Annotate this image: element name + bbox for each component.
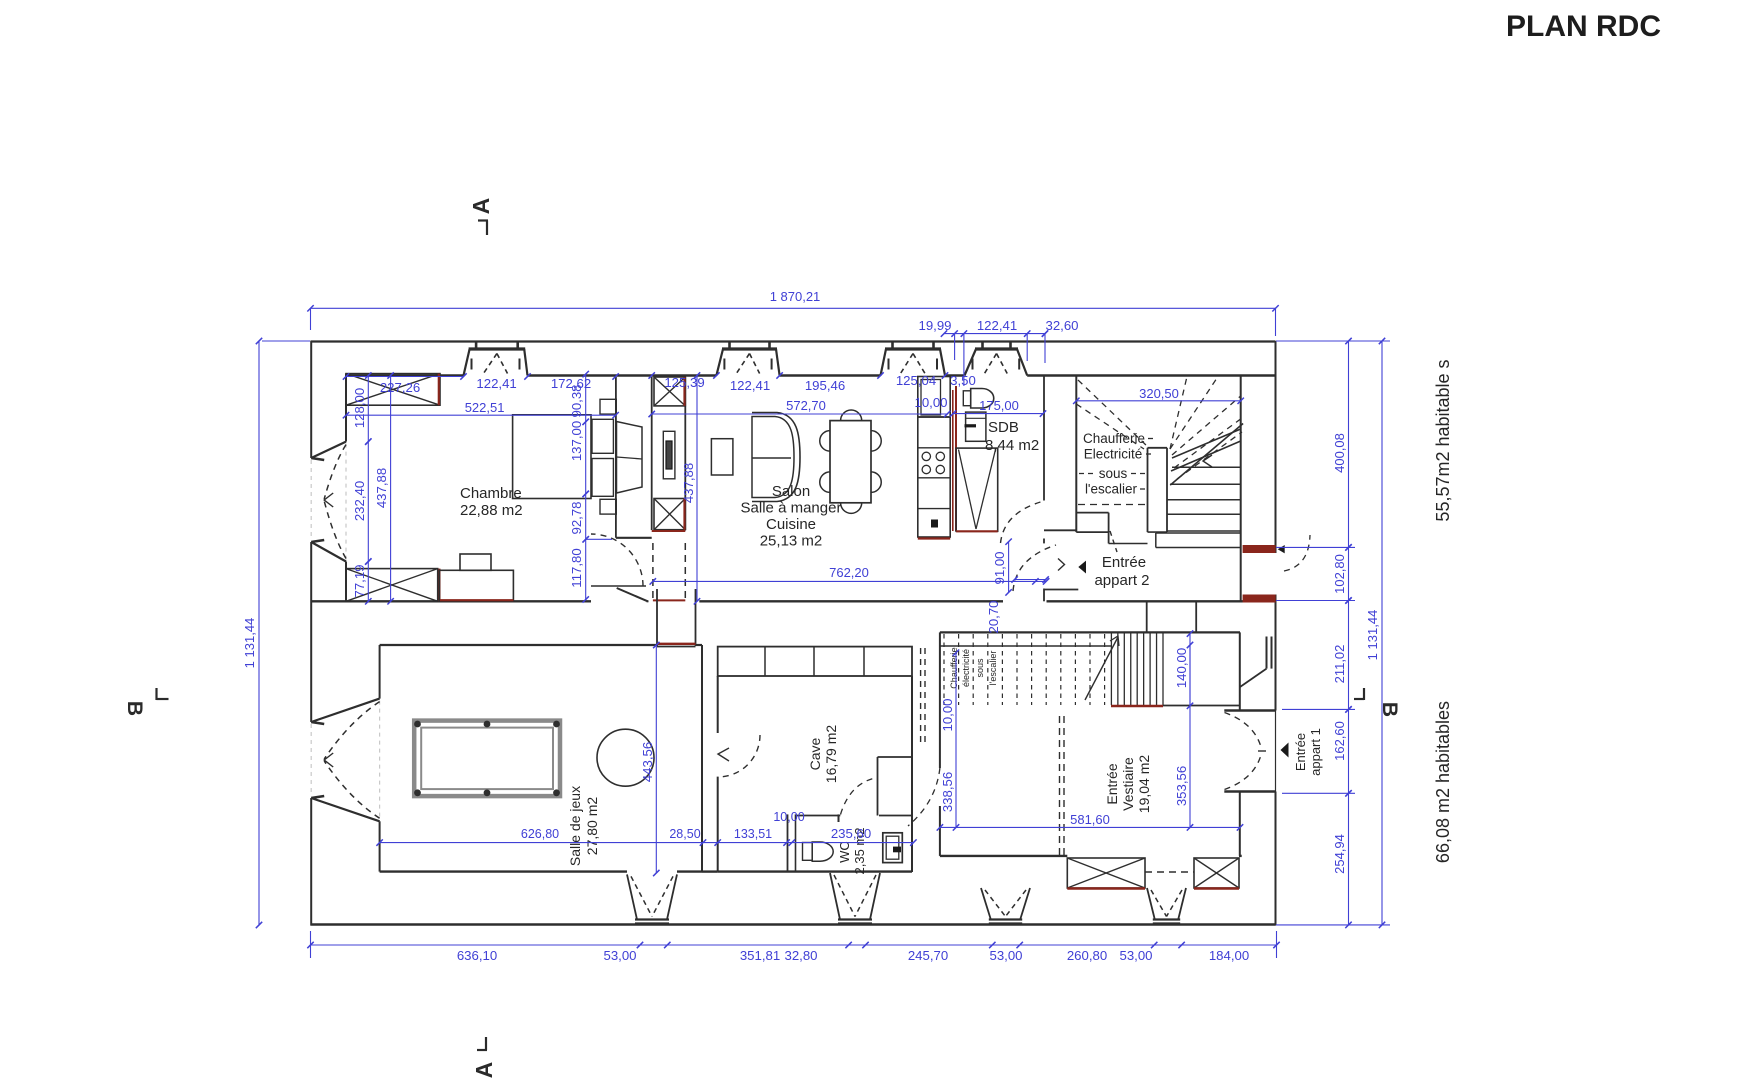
wc washbasin (883, 833, 903, 863)
svg-text:400,08: 400,08 (1332, 433, 1347, 473)
salon south wall (699, 600, 1003, 602)
cave shelves (718, 647, 912, 676)
svg-text:443,56: 443,56 (640, 742, 655, 782)
svg-text:25,13 m2: 25,13 m2 (760, 533, 823, 550)
svg-text:Salle de jeux: Salle de jeux (567, 786, 583, 866)
pool table pockets (414, 721, 421, 728)
cave partition (878, 756, 913, 758)
dim 443 (655, 645, 657, 873)
kitchen chain ext (954, 334, 956, 360)
svg-text:437,88: 437,88 (374, 468, 389, 508)
window kitchen north (965, 349, 977, 376)
svg-text:227,26: 227,26 (380, 380, 420, 395)
svg-text:Chambre: Chambre (460, 485, 522, 502)
dim 162 (1348, 709, 1350, 793)
svg-text:27,80 m2: 27,80 m2 (584, 797, 600, 856)
svg-text:32,60: 32,60 (1045, 318, 1078, 333)
svg-text:8,44 m2: 8,44 m2 (985, 437, 1039, 454)
svg-text:133,51: 133,51 (734, 827, 772, 841)
svg-text:WC: WC (837, 841, 852, 863)
svg-text:195,46: 195,46 (805, 378, 845, 393)
dim 140 (1189, 634, 1191, 706)
dim 1870 (311, 307, 1276, 309)
svg-text:245,70: 245,70 (908, 948, 948, 963)
tv cabinet (711, 439, 733, 475)
radiator between piers (663, 431, 675, 479)
outer wall left (310, 341, 312, 458)
dim 90 (585, 374, 587, 422)
svg-text:90,38: 90,38 (569, 384, 584, 417)
svg-text:32,80: 32,80 (784, 948, 817, 963)
svg-text:66,08 m2 habitables: 66,08 m2 habitables (1433, 701, 1453, 863)
svg-text:53,00: 53,00 (603, 948, 636, 963)
salon opening dashed jambs (652, 543, 654, 601)
right ext lines (1276, 340, 1390, 342)
water heater (956, 448, 998, 531)
svg-text:électricité: électricité (961, 649, 971, 687)
fridge (918, 377, 950, 418)
dim 211 (1348, 601, 1350, 710)
dim ext door chambre (586, 538, 612, 540)
svg-text:l'escalier: l'escalier (1085, 482, 1138, 497)
entree1 door jambs (1224, 709, 1275, 711)
svg-text:636,10: 636,10 (457, 948, 497, 963)
water heater red edges (956, 530, 998, 532)
svg-text:sous: sous (1099, 466, 1128, 481)
stair2 top wall (940, 631, 1240, 633)
wc door arc (841, 778, 878, 815)
svg-text:1 131,44: 1 131,44 (1365, 610, 1380, 661)
svg-text:10,00: 10,00 (914, 395, 947, 410)
svg-text:appart 2: appart 2 (1094, 572, 1149, 589)
dim 572 (652, 413, 948, 415)
chambre south wall (311, 600, 591, 602)
svg-text:53,00: 53,00 (989, 948, 1022, 963)
dim chain salle de jeux (380, 842, 914, 844)
red edge chambre NW pier (438, 374, 440, 406)
svg-text:B: B (123, 701, 146, 716)
svg-text:Cuisine: Cuisine (766, 516, 816, 533)
svg-text:SDB: SDB (988, 419, 1019, 436)
stair2 up arrow (1085, 637, 1118, 700)
cave door arc (718, 735, 760, 777)
NE corner niche (1266, 637, 1268, 669)
window box vestiaire 1 (1067, 858, 1145, 888)
bed pillow 1 (592, 419, 613, 453)
dim 254 (1348, 793, 1350, 925)
svg-text:128,00: 128,00 (352, 388, 367, 428)
svg-text:232,40: 232,40 (352, 481, 367, 521)
kitchen counter (918, 417, 950, 537)
window salon north (716, 349, 723, 376)
svg-text:Cave: Cave (807, 737, 823, 770)
svg-text:3,50: 3,50 (950, 373, 976, 388)
svg-text:28,50: 28,50 (669, 827, 700, 841)
duct walls (656, 589, 658, 646)
round table (597, 729, 654, 786)
hall dashes (920, 648, 922, 742)
red edge salon NW pier (683, 377, 685, 406)
stair2 red base (1111, 705, 1163, 707)
entree2 outside door arc (1284, 535, 1310, 571)
dim 102 (1348, 547, 1350, 600)
svg-text:Entrée: Entrée (1102, 554, 1146, 571)
svg-text:117,80: 117,80 (569, 548, 584, 587)
duct below stairs (1146, 601, 1148, 632)
svg-text:22,88 m2: 22,88 m2 (460, 502, 523, 519)
wardrobe niche (617, 422, 643, 494)
svg-text:Entrée: Entrée (1104, 763, 1120, 804)
salle de jeux walls (380, 644, 657, 646)
svg-text:122,41: 122,41 (476, 376, 516, 391)
fireplace chambre south (439, 570, 513, 601)
dim 338 (955, 653, 957, 828)
svg-text:522,51: 522,51 (465, 400, 505, 415)
dim 522 (346, 414, 616, 416)
svg-text:122,41: 122,41 (977, 318, 1017, 333)
svg-text:260,80: 260,80 (1067, 948, 1107, 963)
svg-text:19,99: 19,99 (918, 318, 951, 333)
vestiaire west wall (939, 632, 941, 768)
svg-text:351,81: 351,81 (740, 948, 780, 963)
svg-text:53,00: 53,00 (1119, 948, 1152, 963)
sink unit (918, 508, 950, 510)
red edge chambre SW pier (438, 569, 440, 602)
dim 762 extra tick (1032, 578, 1038, 584)
svg-text:10,00: 10,00 (940, 698, 955, 731)
dim 227 (346, 376, 464, 378)
window salle de jeux south (627, 874, 637, 919)
chambre east wall (615, 377, 617, 538)
dim 92 (585, 494, 587, 539)
entree2 arrow (1078, 561, 1086, 574)
entree1 door arcs (1225, 713, 1262, 748)
svg-text:762,20: 762,20 (829, 565, 869, 580)
wc walls (787, 814, 789, 872)
svg-text:184,00: 184,00 (1209, 948, 1249, 963)
outer wall top (311, 340, 1276, 342)
entree1 arrow (1281, 743, 1289, 758)
svg-text:572,70: 572,70 (786, 398, 826, 413)
chambre west inner wall (345, 374, 347, 442)
chimney pier chambre SW (346, 569, 438, 602)
cooktop burners (918, 477, 950, 479)
window chambre north (464, 349, 470, 376)
stair up arrow (1203, 455, 1212, 467)
svg-text:211,02: 211,02 (1332, 645, 1347, 684)
svg-text:626,80: 626,80 (521, 827, 559, 841)
svg-text:l'escalier: l'escalier (988, 651, 998, 686)
entree2 door arc (1013, 545, 1056, 591)
sdb red wall (955, 386, 957, 531)
dim 437 chambre (390, 376, 392, 602)
window dining north (881, 349, 887, 376)
svg-text:92,78: 92,78 (569, 501, 584, 534)
pier salon SW (654, 499, 685, 530)
north inner wall (346, 374, 464, 376)
red edge salon SW pier (683, 499, 685, 530)
svg-text:91,00: 91,00 (992, 551, 1007, 584)
stair exit corridor (1108, 532, 1110, 543)
outer wall bottom (311, 923, 1276, 925)
stair storage bottom (1076, 512, 1108, 514)
svg-text:102,80: 102,80 (1332, 554, 1347, 594)
dim 91 aux (1015, 579, 1046, 581)
wc toilet (803, 843, 813, 861)
svg-text:254,94: 254,94 (1332, 834, 1347, 874)
dim 137 (585, 422, 587, 494)
kitchen red line (918, 537, 950, 539)
stair dashed fan (1078, 380, 1147, 446)
svg-text:16,79 m2: 16,79 m2 (823, 725, 839, 784)
dim 762 (653, 580, 1046, 582)
vestiaire dashed partition (1059, 716, 1061, 855)
svg-text:55,57m2 habitable s: 55,57m2 habitable s (1433, 359, 1453, 521)
bedside table bottom (600, 499, 616, 514)
sdb east wall (1043, 376, 1045, 501)
dim 227 extra ticks (524, 373, 530, 379)
dim 175 (953, 413, 1043, 415)
sofa (752, 413, 800, 502)
dim salon chain ticks (649, 372, 655, 378)
bedside table top (600, 399, 616, 414)
duct red line (657, 643, 696, 645)
bed pillow 2 (592, 459, 613, 497)
chimney pier chambre NW (346, 374, 440, 406)
bottom chain (311, 944, 1277, 946)
svg-text:appart 1: appart 1 (1308, 728, 1323, 776)
svg-text:Electricité: Electricité (1084, 447, 1143, 462)
dim 77 (367, 562, 369, 602)
window vestiaire south 1 (981, 888, 991, 920)
pool table (414, 721, 560, 797)
svg-text:A: A (468, 198, 494, 215)
stair2 solid steps (1110, 632, 1112, 705)
svg-text:125,39: 125,39 (664, 375, 704, 390)
vestiaire south wall (940, 855, 1067, 857)
svg-text:Salle à manger: Salle à manger (741, 500, 842, 517)
dim 320 (1076, 400, 1240, 402)
hall door arc (908, 768, 940, 826)
dim 232 (367, 442, 369, 562)
chambre door arc (591, 534, 643, 586)
dashed between boxes (1145, 871, 1194, 873)
dining table (830, 421, 871, 503)
svg-text:175,00: 175,00 (979, 398, 1019, 413)
svg-text:sous: sous (975, 658, 985, 678)
stair room walls (1075, 376, 1077, 533)
sdb door arc (1001, 501, 1044, 543)
pier salon NW (654, 377, 685, 406)
svg-text:Vestiaire: Vestiaire (1120, 757, 1136, 811)
stair2 dashed steps (943, 634, 945, 705)
svg-text:137,00: 137,00 (569, 421, 584, 461)
dim 581 (940, 826, 1240, 828)
svg-text:Chaufferie: Chaufferie (949, 647, 959, 688)
sdb toilet (963, 391, 970, 406)
svg-text:125,04: 125,04 (896, 373, 936, 388)
svg-text:122,41: 122,41 (730, 378, 770, 393)
svg-text:353,56: 353,56 (1174, 766, 1189, 806)
dim 353 (1189, 645, 1191, 827)
stair newel (1147, 448, 1149, 532)
svg-text:19,04 m2: 19,04 m2 (1136, 755, 1152, 814)
red under box1 (1067, 887, 1145, 889)
window wc south (830, 873, 840, 920)
outer wall right (1275, 341, 1277, 553)
svg-text:Salon: Salon (772, 483, 810, 500)
svg-text:140,00: 140,00 (1174, 648, 1189, 688)
svg-text:Chaufferie: Chaufferie (1083, 431, 1145, 446)
dim 400 (1348, 341, 1350, 547)
dim 117 (585, 539, 587, 599)
dim 91 (1008, 542, 1010, 593)
dim 1870 ext (310, 308, 312, 330)
svg-text:437,88: 437,88 (681, 463, 696, 503)
window box vestiaire 2 (1194, 858, 1239, 888)
svg-text:1 870,21: 1 870,21 (770, 289, 821, 304)
svg-text:A: A (471, 1062, 497, 1079)
svg-text:235,60: 235,60 (831, 826, 871, 841)
svg-text:77,19: 77,19 (352, 564, 367, 597)
sdb washbasin (966, 412, 986, 441)
bed (513, 415, 591, 499)
svg-text:PLAN RDC: PLAN RDC (1506, 10, 1661, 43)
kitchen chain ticks (951, 330, 957, 336)
cave walls (717, 676, 719, 733)
dining chairs (820, 431, 830, 452)
stair2 landing line (1163, 705, 1240, 707)
svg-text:162,60: 162,60 (1332, 721, 1347, 761)
stair steps (1172, 466, 1241, 468)
window vestiaire south 2 (1147, 888, 1155, 920)
svg-text:10,00: 10,00 (773, 810, 804, 824)
svg-text:320,50: 320,50 (1139, 386, 1179, 401)
svg-text:581,60: 581,60 (1070, 812, 1110, 827)
svg-text:20,70: 20,70 (986, 600, 1001, 633)
red under box2 (1194, 887, 1239, 889)
vestiaire east wall (1239, 632, 1241, 710)
dim kitchen chain (944, 333, 1045, 335)
dim 128 (367, 376, 369, 442)
landing steps entree2 (1156, 532, 1241, 534)
dim 437 salon (696, 376, 698, 602)
svg-text:1 131,44: 1 131,44 (242, 618, 257, 669)
understair dashed rows (1148, 438, 1155, 440)
svg-text:338,56: 338,56 (940, 772, 955, 812)
dim left 1131 (258, 341, 260, 925)
window chambre west (311, 442, 346, 458)
french door salle de jeux west (311, 699, 379, 722)
svg-text:Entrée: Entrée (1293, 733, 1308, 771)
red segments right wall (1243, 545, 1276, 553)
dim right 1131 (1381, 341, 1383, 925)
salon west wall lines (651, 377, 653, 530)
